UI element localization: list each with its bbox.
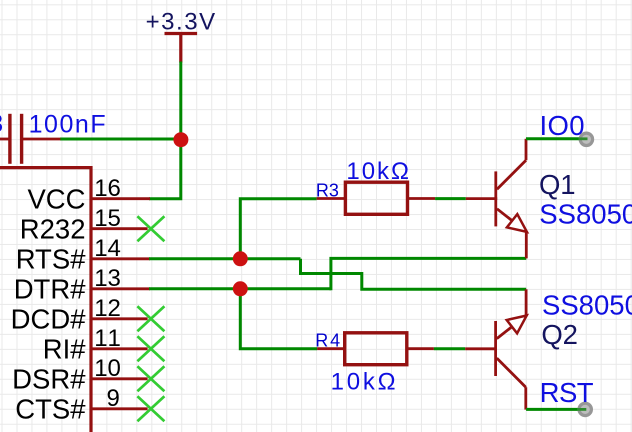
- svg-text:Q2: Q2: [541, 319, 578, 350]
- svg-text:CTS#: CTS#: [15, 394, 86, 425]
- pin names: [11, 184, 87, 425]
- pin numbers: [94, 175, 121, 412]
- svg-text:100nF: 100nF: [29, 111, 106, 139]
- svg-text:12: 12: [94, 295, 121, 322]
- resistor R4 leads: [317, 347, 434, 350]
- capacitor C3 leads: [0, 138, 60, 141]
- svg-text:RST: RST: [540, 377, 594, 408]
- wire DTR# branch down to R4: [240, 289, 317, 349]
- svg-text:VCC: VCC: [27, 184, 85, 215]
- pin 13 lead: [91, 287, 150, 290]
- svg-text:C3: C3: [0, 110, 3, 138]
- svg-text:RI#: RI#: [43, 334, 87, 365]
- svg-text:11: 11: [94, 325, 121, 352]
- svg-text:9: 9: [106, 385, 119, 412]
- wire +3.3V vertical to junction: [179, 62, 182, 141]
- pin 10 lead: [91, 377, 148, 380]
- resistor R4 body: [345, 333, 407, 365]
- svg-text:DCD#: DCD#: [11, 304, 87, 335]
- svg-text:IO0: IO0: [540, 110, 585, 141]
- svg-text:13: 13: [94, 265, 121, 292]
- wire R3 to Q1 base: [435, 197, 466, 200]
- wire DTR# net crossover to Q1 emitter: [331, 258, 526, 290]
- junction dot RTS#: [233, 251, 248, 266]
- svg-text:DTR#: DTR#: [14, 274, 87, 305]
- svg-text:R232: R232: [20, 214, 86, 245]
- pin 12 lead: [91, 317, 148, 320]
- resistor R3 body: [345, 182, 407, 214]
- wire R4 to Q2 base: [434, 347, 465, 350]
- wire RTS# net pin14 to jog: [149, 257, 301, 260]
- svg-text:14: 14: [94, 235, 121, 262]
- svg-text:RTS#: RTS#: [16, 244, 87, 275]
- wire RTS# branch up to R3: [240, 199, 316, 259]
- wire Q2 collector to RST port: [526, 408, 585, 411]
- no-connect X pin 11: [137, 336, 164, 361]
- no-connect X pin 10: [137, 366, 164, 391]
- resistor R3 leads: [317, 197, 436, 200]
- transistor Q2 SS8050 (mirrored): [465, 289, 527, 409]
- wire Q1 collector to IO0 port: [526, 137, 586, 140]
- junction dot A: [173, 132, 188, 147]
- svg-text:Q1: Q1: [539, 169, 576, 200]
- svg-text:15: 15: [94, 205, 121, 232]
- no-connect X pin 9: [137, 396, 164, 421]
- svg-text:SS8050: SS8050: [539, 199, 632, 230]
- junction dot DTR#: [233, 281, 248, 296]
- pin 16 lead: [91, 197, 150, 200]
- svg-text:10kΩ: 10kΩ: [331, 368, 396, 395]
- svg-text:16: 16: [94, 175, 121, 202]
- pin 9 lead: [91, 407, 148, 410]
- IC U1 body outline: [0, 168, 91, 432]
- capacitor C3 plates: [10, 114, 22, 164]
- pin 11 lead: [91, 347, 148, 350]
- svg-text:10: 10: [94, 355, 121, 382]
- wire junction down to VCC pin: [149, 139, 181, 199]
- no-connect X pin 12: [137, 306, 164, 331]
- wire capacitor to junction: [60, 138, 182, 141]
- svg-text:+3.3V: +3.3V: [146, 9, 216, 36]
- pin 15 lead: [91, 227, 148, 230]
- svg-text:10kΩ: 10kΩ: [346, 158, 409, 185]
- svg-text:SS8050: SS8050: [542, 289, 632, 320]
- no-connect X pin 15: [137, 216, 164, 241]
- svg-text:R4: R4: [315, 330, 340, 350]
- power flag +3.3V: [165, 34, 198, 63]
- svg-text:R3: R3: [316, 180, 339, 200]
- svg-text:DSR#: DSR#: [12, 364, 86, 395]
- wire DTR# net pin13 to crossover: [149, 287, 331, 290]
- transistor Q1 SS8050: [466, 139, 527, 259]
- net port RST: [579, 403, 591, 415]
- wire RTS# net jog to Q2 emitter: [301, 259, 527, 290]
- pin 14 lead: [91, 257, 150, 260]
- net port IO0: [580, 133, 592, 145]
